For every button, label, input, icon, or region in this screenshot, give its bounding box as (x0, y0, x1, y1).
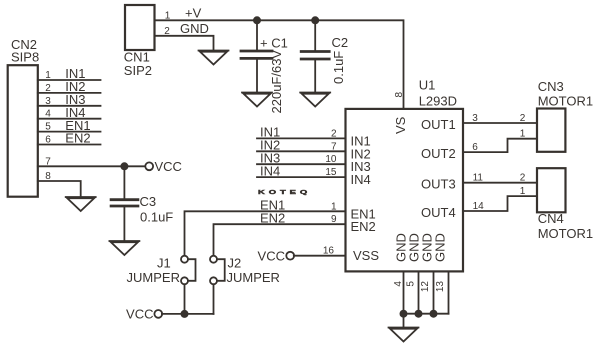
svg-text:SIP8: SIP8 (11, 50, 39, 65)
ground (C1) (242, 93, 272, 107)
svg-text:2: 2 (331, 128, 337, 139)
svg-text:+V: +V (185, 6, 202, 21)
wire EN2 net (U1 pin 9 to J2) (214, 210, 346, 255)
svg-text:4: 4 (393, 281, 404, 287)
ground (C2) (300, 93, 330, 107)
svg-text:5: 5 (45, 122, 51, 133)
svg-text:0.1uF: 0.1uF (331, 51, 346, 84)
svg-text:VS: VS (393, 116, 408, 134)
svg-text:C2: C2 (332, 35, 349, 50)
svg-text:2: 2 (520, 173, 526, 184)
svg-text:GND: GND (180, 21, 209, 36)
svg-text:EN2: EN2 (260, 210, 285, 225)
svg-text:9: 9 (331, 214, 337, 225)
svg-text:MOTOR1: MOTOR1 (538, 93, 593, 108)
wire CN2 pin 5 EN1 (38, 118, 101, 133)
svg-text:6: 6 (472, 142, 478, 153)
connector CN2 (8, 37, 39, 197)
svg-text:8: 8 (45, 171, 51, 182)
svg-text:EN2: EN2 (351, 219, 376, 234)
svg-text:14: 14 (473, 201, 485, 212)
node VCC terminal (pin 7) (145, 159, 182, 174)
svg-text:CN3: CN3 (538, 79, 564, 94)
svg-text:1: 1 (45, 70, 51, 81)
wire IN4 stub to U1 (257, 163, 346, 178)
wire CN1 pin 2 GND (155, 21, 214, 51)
svg-text:VCC: VCC (126, 307, 153, 322)
svg-text:5: 5 (406, 281, 417, 287)
wire CN2 pin 2 IN2 (38, 79, 101, 94)
svg-text:EN2: EN2 (65, 131, 90, 146)
wire U1 GND pins to ground (404, 271, 449, 327)
svg-text:6: 6 (45, 135, 51, 146)
pin labels U1 right side (421, 117, 456, 220)
node junction GND pin12 (430, 310, 438, 318)
svg-text:0.1uF: 0.1uF (140, 210, 173, 225)
svg-text:IN4: IN4 (351, 172, 371, 187)
svg-text:11: 11 (473, 173, 484, 184)
svg-text:2: 2 (520, 113, 526, 124)
wire CN2 pin 6 EN2 (38, 131, 101, 146)
wire OUT3 (U1 pin 11 to CN4 pin 2) (463, 173, 537, 184)
svg-text:10: 10 (325, 154, 337, 165)
svg-text:VCC: VCC (258, 248, 285, 263)
wire OUT2 (U1 pin 6 to CN3 pin 1) (463, 129, 537, 153)
wire VCC to U1 VSS pin 16 (294, 246, 346, 257)
svg-text:VCC: VCC (155, 159, 182, 174)
capacitor C2 (301, 20, 348, 92)
ground (C3) (109, 241, 139, 255)
svg-text:3: 3 (45, 96, 51, 107)
connector CN3 (537, 79, 593, 152)
svg-text:13: 13 (435, 281, 446, 293)
node junction GND pin5 (415, 310, 423, 318)
svg-text:8: 8 (394, 92, 405, 98)
svg-text:IN4: IN4 (260, 163, 280, 178)
svg-text:+ C1: + C1 (260, 36, 288, 51)
node VCC terminal (VSS) (258, 248, 295, 263)
ground (U1) (389, 328, 419, 342)
svg-text:VSS: VSS (353, 248, 379, 263)
svg-text:CN4: CN4 (538, 211, 564, 226)
svg-text:JUMPER: JUMPER (227, 270, 280, 285)
op-amp U1 L293D body (346, 78, 464, 272)
wire OUT1 (U1 pin 3 to CN3 pin 2) (463, 113, 537, 124)
node junction pin7/C3 (120, 162, 128, 170)
svg-text:1: 1 (520, 129, 526, 140)
svg-text:1: 1 (165, 10, 171, 21)
svg-text:OUT4: OUT4 (421, 205, 456, 220)
svg-text:OUT1: OUT1 (421, 117, 456, 132)
svg-text:SIP2: SIP2 (124, 63, 152, 78)
svg-text:U1: U1 (419, 78, 436, 93)
svg-text:JUMPER: JUMPER (127, 270, 180, 285)
svg-text:2: 2 (45, 83, 51, 94)
node junction VCC/J1 (181, 310, 189, 318)
svg-text:1: 1 (520, 186, 526, 197)
node junction +V/C2 (311, 16, 319, 24)
wire OUT4 (U1 pin 14 to CN4 pin 1) (463, 186, 537, 212)
svg-text:C3: C3 (140, 194, 157, 209)
connector CN4 (537, 168, 593, 241)
wire CN2 pin 1 IN1 (38, 66, 101, 81)
ground (CN1 pin 2) (199, 51, 229, 65)
svg-text:220uF/63V: 220uF/63V (269, 50, 284, 114)
node VCC terminal (jumper common) (126, 307, 162, 322)
node junction +V/C1 (253, 16, 261, 24)
svg-text:J1: J1 (157, 256, 171, 271)
svg-text:J2: J2 (228, 256, 242, 271)
svg-text:MOTOR1: MOTOR1 (538, 226, 593, 241)
node junction GND pin4 (400, 310, 408, 318)
svg-text:4: 4 (45, 109, 51, 120)
wire IN1 stub to U1 (257, 125, 346, 140)
svg-text:OUT2: OUT2 (421, 146, 456, 161)
connector CN1 (124, 5, 155, 78)
wire IN2 stub to U1 (257, 138, 346, 153)
pin labels U1 GND (pins 4,5,12,13) (393, 233, 448, 292)
wire IN3 stub to U1 (257, 150, 346, 165)
wire CN2 pin 7 VCC (38, 156, 146, 167)
svg-text:KOTEQ: KOTEQ (258, 189, 311, 195)
svg-text:GND: GND (433, 233, 448, 262)
svg-text:15: 15 (325, 167, 337, 178)
svg-text:2: 2 (164, 26, 170, 37)
wire EN1 net (U1 pin 1 to J1) (185, 198, 346, 256)
svg-text:3: 3 (472, 113, 478, 124)
svg-text:7: 7 (45, 156, 51, 167)
jumper J1 (127, 256, 196, 286)
capacitor C1 (241, 20, 288, 113)
wire CN2 pin 8 to ground (38, 171, 81, 197)
jumper J2 (210, 256, 280, 286)
svg-text:OUT3: OUT3 (421, 177, 456, 192)
pin label VS (pin 8) (393, 92, 408, 135)
capacitor C3 (111, 166, 173, 241)
wire CN2 pin 4 IN4 (38, 105, 101, 120)
svg-text:12: 12 (420, 281, 431, 293)
svg-text:7: 7 (331, 141, 337, 152)
svg-text:1: 1 (331, 201, 337, 212)
ground (CN2 pin 8) (66, 197, 96, 211)
wire CN2 pin 3 IN3 (38, 92, 101, 107)
svg-text:L293D: L293D (419, 93, 457, 108)
wire +V net (CN1 pin 1 to U1 pin 8) (155, 6, 404, 109)
wire VCC to jumpers (162, 284, 214, 314)
svg-text:16: 16 (323, 246, 335, 257)
pin labels U1 left side (351, 133, 380, 263)
